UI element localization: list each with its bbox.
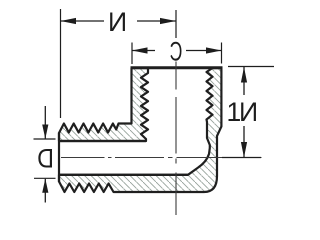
dimension N line right segment xyxy=(137,20,176,22)
dimension M top arrowhead xyxy=(241,67,247,83)
dimension N extension line left xyxy=(60,9,62,118)
dimension N line left segment xyxy=(61,20,105,22)
body section upper-left (male thread wall + female hub left wall), hatched xyxy=(59,68,148,141)
body section lower-right (bottom male thread wall + elbow corner + female hub right wall), hatched xyxy=(59,68,221,192)
dimension N left arrowhead xyxy=(61,18,77,24)
dimension M extension line top xyxy=(228,66,274,68)
dimension D top arrowhead (down) xyxy=(42,125,48,139)
dimension M bottom arrowhead xyxy=(241,142,247,158)
vertical centerline xyxy=(175,62,177,216)
dimension M line bottom segment xyxy=(243,126,245,158)
dimension N right arrowhead xyxy=(160,18,176,24)
dimension C line left segment xyxy=(132,50,155,52)
dimension M extension line bottom xyxy=(222,157,261,159)
svg-text:C: C xyxy=(170,37,183,67)
svg-text:D: D xyxy=(37,145,54,174)
svg-text:N: N xyxy=(108,7,127,37)
dimension N extension line right xyxy=(175,10,177,38)
male end face xyxy=(58,133,60,182)
dimension D bottom arrow shaft xyxy=(44,179,46,203)
dimension D tick bottom xyxy=(34,177,56,179)
dimension C extension line left xyxy=(131,43,133,65)
svg-text:N: N xyxy=(239,97,258,127)
bore top line xyxy=(59,140,146,142)
dimension C right arrowhead xyxy=(206,47,222,53)
dimension C left arrowhead xyxy=(132,47,148,53)
bore bottom line xyxy=(59,174,188,176)
dimension D bottom arrowhead (up) xyxy=(42,179,48,193)
female port top face xyxy=(131,66,223,69)
dimension C extension line right xyxy=(221,43,223,64)
dimension M line top segment xyxy=(243,67,245,95)
horizontal centerline xyxy=(61,157,262,159)
dimension C line right segment xyxy=(186,50,222,52)
dimension D top arrow shaft xyxy=(44,106,46,139)
dimension D tick top xyxy=(34,138,56,140)
